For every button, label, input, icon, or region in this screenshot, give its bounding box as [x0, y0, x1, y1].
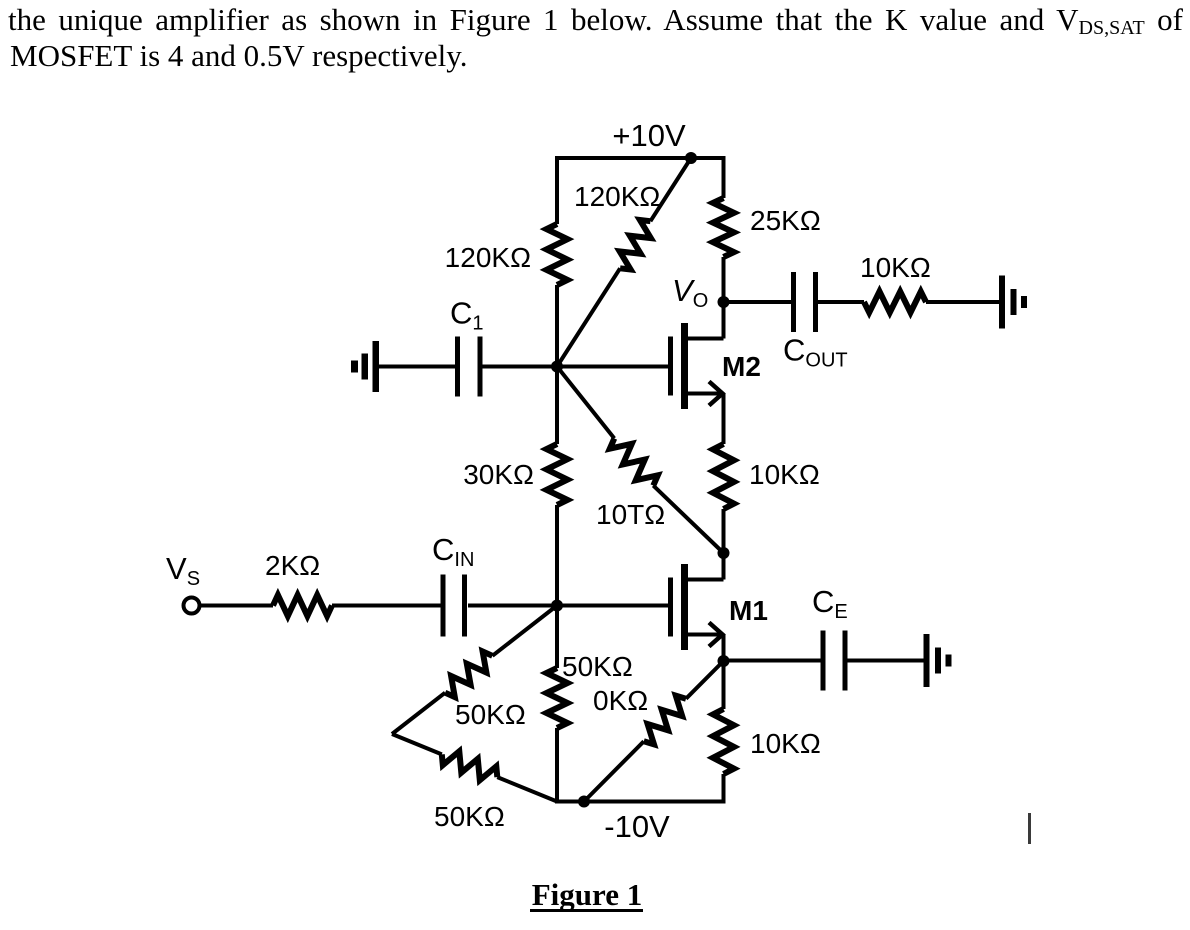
resistor 30K&#937; (vertical)	[547, 444, 568, 505]
wire 10T&#937; diagonal leads	[557, 367, 724, 554]
resistor 120K&#937; diagonal	[620, 220, 651, 270]
svg-text:10KΩ: 10KΩ	[750, 728, 821, 759]
wire source node to 10K	[722, 661, 726, 709]
svg-text:VO: VO	[672, 273, 708, 312]
resistor 120K&#937; left (vertical)	[547, 224, 568, 285]
wire left branch lower	[555, 505, 559, 668]
svg-text:C1: C1	[450, 296, 484, 335]
wire +10V top rail	[555, 156, 726, 160]
svg-text:50KΩ: 50KΩ	[434, 801, 505, 832]
svg-text:10TΩ: 10TΩ	[596, 499, 665, 530]
resistor 25K&#937; (vertical)	[713, 198, 734, 257]
wire -10V bottom rail	[555, 800, 726, 804]
wire Vo to M2 drain	[722, 302, 726, 339]
capacitor C1	[458, 337, 481, 397]
wire 120K&#937; diagonal leads	[557, 158, 691, 367]
wire 50K&#937; upper-diagonal leads	[392, 606, 557, 735]
node -10V rail junction	[578, 796, 590, 808]
svg-text:2KΩ: 2KΩ	[265, 550, 320, 581]
resistor 10K&#937; output (horizontal)	[864, 292, 926, 313]
wire left branch bottom	[555, 728, 559, 804]
wire center node to M2 gate	[557, 365, 668, 369]
resistor 50K&#937; lower diagonal	[442, 751, 498, 780]
resistor 10T&#937; diagonal	[610, 438, 658, 485]
svg-text:0KΩ: 0KΩ	[593, 685, 648, 716]
wire 10K to bottom rail	[722, 774, 726, 802]
resistor 10K&#937; bottom right (vertical)	[713, 709, 734, 774]
wire M1 source to Ce	[724, 659, 821, 663]
wire C1 to center node	[482, 365, 557, 369]
wire Cout to 10K	[818, 300, 864, 304]
wire M1 source down	[722, 635, 726, 662]
wire 0K&#937; diagonal leads	[584, 661, 724, 802]
wire 10K to mid node	[722, 509, 726, 553]
svg-text:120KΩ: 120KΩ	[574, 181, 660, 212]
svg-text:M2: M2	[722, 351, 761, 382]
capacitor Ce	[823, 631, 845, 691]
wire node to M1 drain	[722, 553, 726, 580]
wire left branch upper	[555, 156, 559, 224]
svg-text:120KΩ: 120KΩ	[445, 242, 531, 273]
transistor M1 (NMOS)	[671, 564, 724, 650]
capacitor Cin	[443, 575, 465, 637]
node input gate junction	[551, 600, 563, 612]
resistor 0K&#937; diagonal	[644, 696, 686, 745]
node center bias junction	[551, 361, 563, 373]
svg-text:10KΩ: 10KΩ	[860, 252, 931, 283]
resistor 2K&#937; (horizontal)	[273, 595, 332, 616]
node Vo output	[718, 296, 730, 308]
terminal Vs source	[184, 598, 200, 614]
svg-text:+10V: +10V	[612, 118, 686, 153]
wire right branch top	[722, 156, 726, 198]
svg-text:25KΩ: 25KΩ	[750, 205, 821, 236]
capacitor Cout	[794, 272, 816, 332]
wire input node to M1 gate	[557, 604, 668, 608]
svg-text:COUT: COUT	[783, 333, 848, 372]
svg-text:CE: CE	[812, 584, 848, 623]
resistor 50K&#937; vertical	[547, 668, 568, 728]
svg-text:50KΩ: 50KΩ	[455, 699, 526, 730]
wire Cin to input node	[468, 604, 557, 608]
transistor M2 (NMOS)	[671, 323, 724, 409]
wire Vs to 2K	[200, 604, 274, 608]
svg-text:30KΩ: 30KΩ	[463, 459, 534, 490]
wire Ce to ground	[848, 659, 924, 663]
resistor 10K&#937; below M2 (vertical)	[713, 444, 734, 509]
ground left of C1	[351, 341, 379, 392]
ground Ce right	[924, 634, 952, 687]
node M1 drain junction	[718, 547, 730, 559]
wire 50K&#937; lower-diagonal leads	[392, 734, 557, 802]
wire left branch middle	[555, 285, 559, 444]
svg-text:VS: VS	[166, 551, 200, 590]
resistor 50K&#937; upper diagonal	[445, 651, 492, 697]
node M1 source junction	[718, 655, 730, 667]
svg-text:50KΩ: 50KΩ	[562, 651, 633, 682]
wire 25K to Vo node	[722, 257, 726, 302]
svg-text:-10V: -10V	[604, 809, 670, 844]
svg-text:CIN: CIN	[432, 532, 474, 571]
wire ground to C1	[378, 365, 456, 369]
wire 10K to ground	[926, 300, 999, 304]
svg-text:10KΩ: 10KΩ	[749, 459, 820, 490]
wire 2K to Cin	[332, 604, 441, 608]
wire M2 source down	[722, 394, 726, 445]
node +10V rail junction	[685, 152, 697, 164]
svg-text:M1: M1	[729, 595, 768, 626]
wire Vo to Cout	[724, 300, 792, 304]
ground output right	[999, 276, 1027, 329]
